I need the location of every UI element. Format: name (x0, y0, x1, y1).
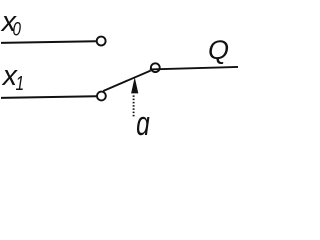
wire x1 input (1, 96, 96, 98)
svg-text:0: 0 (12, 17, 21, 39)
pole circle Q (151, 63, 160, 72)
svg-text:1: 1 (16, 72, 25, 94)
control arrow a (dotted shaft) (133, 95, 135, 118)
wire Q output (150, 67, 238, 70)
switch arm wiper (103, 71, 150, 91)
wire x0 input (1, 41, 96, 43)
control arrow a (head) (131, 77, 138, 93)
terminal circle x1 (97, 92, 106, 101)
svg-text:Q: Q (208, 35, 229, 65)
svg-text:ɑ: ɑ (136, 105, 150, 143)
terminal circle x0 (97, 37, 106, 46)
